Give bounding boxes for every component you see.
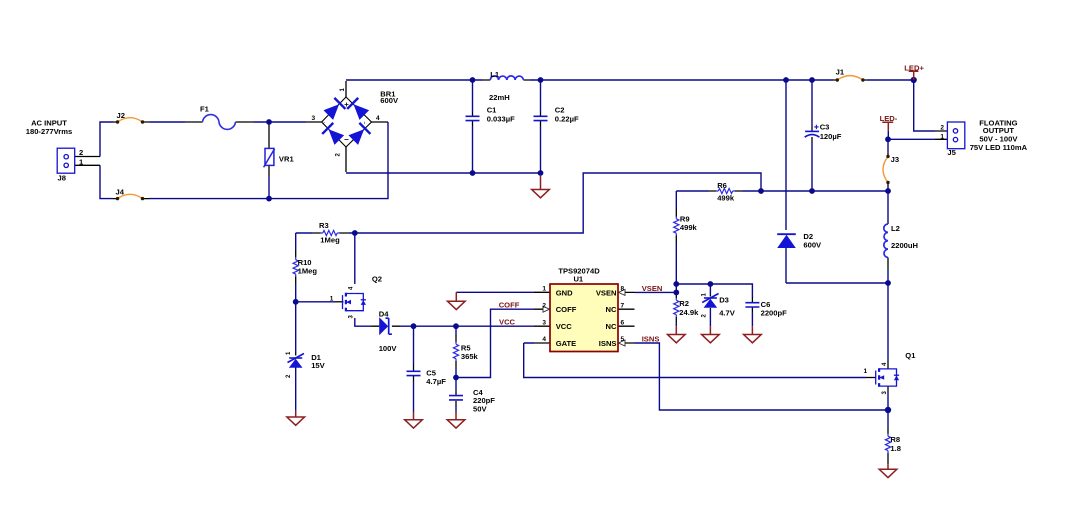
svg-text:Q1: Q1 (905, 351, 916, 360)
svg-text:2: 2 (940, 125, 944, 132)
svg-text:4: 4 (542, 336, 546, 343)
svg-text:4: 4 (376, 115, 380, 122)
svg-text:ISNS: ISNS (642, 335, 660, 344)
svg-text:3: 3 (542, 319, 546, 326)
svg-text:R6: R6 (717, 181, 727, 190)
svg-text:GATE: GATE (556, 339, 577, 348)
svg-text:COFF: COFF (556, 305, 577, 314)
svg-text:C2: C2 (555, 105, 565, 114)
svg-text:C3: C3 (820, 123, 830, 132)
svg-text:~: ~ (363, 122, 369, 125)
svg-text:22mH: 22mH (489, 93, 510, 102)
svg-text:NC: NC (606, 322, 617, 331)
svg-text:50V: 50V (473, 405, 487, 414)
svg-text:365k: 365k (461, 352, 479, 361)
svg-text:L2: L2 (891, 224, 900, 233)
svg-text:4.7µF: 4.7µF (426, 377, 446, 386)
svg-text:2: 2 (79, 148, 83, 157)
svg-text:8: 8 (621, 286, 625, 293)
svg-text:180-277Vrms: 180-277Vrms (26, 127, 72, 136)
svg-text:J4: J4 (116, 188, 125, 197)
svg-text:J3: J3 (891, 155, 899, 164)
svg-text:2: 2 (542, 302, 546, 309)
svg-text:U1: U1 (573, 275, 583, 284)
svg-text:5: 5 (621, 336, 625, 343)
svg-text:VCC: VCC (499, 318, 516, 327)
svg-text:F1: F1 (200, 105, 210, 114)
svg-text:NC: NC (606, 305, 617, 314)
svg-text:499k: 499k (680, 223, 698, 232)
svg-text:1: 1 (542, 286, 546, 293)
svg-text:4.7V: 4.7V (719, 308, 736, 317)
svg-text:~: ~ (322, 122, 328, 125)
svg-text:1Meg: 1Meg (320, 236, 340, 245)
svg-text:120µF: 120µF (820, 132, 842, 141)
svg-text:VCC: VCC (556, 322, 573, 331)
svg-text:6: 6 (621, 319, 625, 326)
svg-text:600V: 600V (803, 241, 822, 250)
svg-text:LED+: LED+ (904, 63, 924, 72)
svg-text:1Meg: 1Meg (298, 267, 318, 276)
svg-text:499k: 499k (717, 193, 735, 202)
svg-text:0.033µF: 0.033µF (487, 114, 515, 123)
svg-text:1: 1 (330, 295, 334, 302)
svg-text:3: 3 (312, 115, 316, 122)
svg-text:LED-: LED- (880, 114, 898, 123)
svg-text:100V: 100V (379, 344, 398, 353)
svg-text:J1: J1 (836, 68, 845, 77)
svg-text:600V: 600V (380, 96, 399, 105)
svg-text:2200pF: 2200pF (761, 309, 788, 318)
svg-text:D3: D3 (719, 295, 729, 304)
svg-text:1: 1 (940, 133, 944, 140)
svg-text:R3: R3 (319, 221, 329, 230)
svg-text:75V LED 110mA: 75V LED 110mA (970, 143, 1028, 152)
svg-text:2200uH: 2200uH (891, 241, 918, 250)
svg-text:15V: 15V (311, 361, 325, 370)
svg-text:VSEN: VSEN (642, 284, 663, 293)
svg-text:C6: C6 (761, 300, 771, 309)
svg-text:GND: GND (556, 288, 573, 297)
svg-text:VR1: VR1 (279, 154, 295, 163)
svg-text:J5: J5 (947, 148, 956, 157)
svg-text:ISNS: ISNS (599, 339, 617, 348)
svg-text:D4: D4 (379, 309, 389, 318)
svg-text:C1: C1 (487, 105, 497, 114)
svg-text:1.8: 1.8 (890, 444, 901, 453)
svg-text:R8: R8 (890, 435, 900, 444)
svg-text:0.22µF: 0.22µF (555, 114, 579, 123)
svg-text:24.9k: 24.9k (679, 308, 699, 317)
svg-text:L1: L1 (490, 70, 500, 79)
svg-text:COFF: COFF (499, 301, 520, 310)
svg-text:J8: J8 (58, 174, 66, 183)
svg-text:R2: R2 (679, 299, 689, 308)
svg-text:Q2: Q2 (372, 275, 382, 284)
svg-text:VSEN: VSEN (596, 288, 617, 297)
svg-text:J2: J2 (117, 111, 125, 120)
svg-text:1: 1 (864, 368, 868, 375)
svg-text:7: 7 (621, 302, 625, 309)
